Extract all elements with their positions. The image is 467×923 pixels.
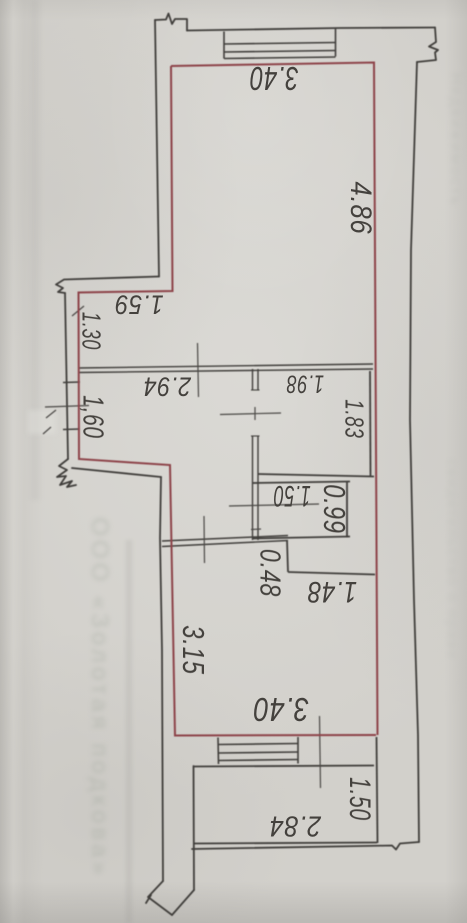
central partition wall, upper segment (double line) [252, 369, 254, 390]
doorway jamb tick lower [251, 435, 260, 437]
tick on doorway dimension line [254, 407, 256, 420]
exterior wall, top-right break symbol [417, 28, 438, 63]
window W2 jamb ticks (left wall) [63, 381, 80, 384]
dimension label 1.50 (bath room width) [273, 478, 310, 512]
balcony right wall [377, 737, 378, 843]
bottom-left cut tick [146, 895, 151, 903]
extension tick between dims 2.94 and 1.98 [198, 343, 199, 397]
partition wall between top room and middle rooms (double line) [78, 364, 373, 368]
extension tick through lower partition wall [203, 516, 206, 563]
bleed-through text, right margin lower [444, 459, 461, 661]
dimension label 3.40 (top wall) [249, 59, 298, 97]
red apartment boundary, left with notch and bottom [79, 66, 377, 736]
jamb tick on room 0.99 left wall [251, 528, 261, 531]
dimension label 3.40 (bottom wall) [253, 690, 309, 728]
dimension label 1.98 (small room width) [286, 368, 324, 397]
central partition wall, lower segment (double line) [252, 436, 254, 540]
step 0.48 vertical wall [287, 540, 288, 572]
doorway jamb tick upper [251, 389, 260, 391]
window W1 (top wall) [223, 32, 225, 59]
dimension label 2.84 (balcony width) [269, 808, 321, 841]
dimension label 1.30 (notch depth) [76, 312, 107, 350]
balcony bottom wall [194, 843, 377, 844]
inner face line of left lower wall [172, 890, 194, 915]
exterior wall, left upper (west) [155, 20, 159, 277]
notch left wall [65, 293, 68, 459]
bleed-through text, right margin upper [446, 73, 464, 207]
dimension label 4.86 (big room depth) [343, 181, 377, 234]
room 1.98x1.83 bottom wall [258, 474, 374, 477]
exterior wall, top (north) [187, 28, 435, 31]
room 0.99x1.50 right wall [346, 482, 348, 538]
partition wall between middle room and room 3.15 (double line) [162, 536, 288, 542]
dimension label 1.59 (notch width) [114, 288, 163, 319]
window W3 (bottom wall) [217, 738, 220, 765]
room 1.98x1.83 right wall [369, 371, 372, 476]
window W2 axis line [45, 406, 89, 408]
dimension label 3.15 (lower room depth) [175, 625, 211, 675]
dimension label 1.48 (step width) [307, 574, 357, 608]
dimension slash below W2 axis [43, 427, 51, 434]
bottom-left diagonal cut of wall [148, 881, 172, 915]
exterior wall, bottom-right corner with break symbol [192, 842, 419, 850]
dimension label 0.48 (step depth) [253, 548, 286, 596]
room 0.99x1.50 bottom wall [253, 537, 350, 539]
red apartment boundary, top and right [171, 63, 378, 736]
step 1.48 horizontal wall [288, 572, 375, 575]
inner face line along balcony left side [193, 766, 196, 890]
notch bottom wall [72, 468, 161, 477]
dimension slash on W2 axis [46, 410, 56, 418]
dimension line for 1.50 [229, 504, 319, 506]
dimension label 2.94 (middle room width) [143, 371, 191, 402]
dimension line through doorway [220, 413, 281, 415]
balcony front wall [194, 766, 374, 767]
dimension label 1,60 (left window) [76, 395, 109, 439]
dimension label 0.99 (bath room depth) [316, 484, 352, 534]
dimension slash at 1.59 [72, 306, 84, 316]
room 0.99x1.50 top wall [253, 482, 350, 484]
exterior wall, top-left segment with break symbol [155, 14, 187, 31]
extension line between dims 3.40 and 1.50 (balcony) [320, 716, 321, 788]
dimension label 1.50 (balcony depth) [342, 777, 376, 821]
dimension label 1.83 (small room depth) [338, 399, 369, 438]
exterior wall, left lower (west) [160, 477, 163, 881]
bleed-through text, left margin [85, 517, 113, 878]
notch step wall with break symbol [56, 277, 159, 294]
notch bottom break zigzag [57, 459, 76, 487]
exterior wall, right (east) [410, 62, 419, 842]
